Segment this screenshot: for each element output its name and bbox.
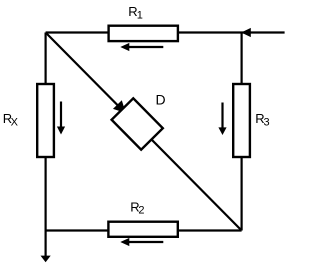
resistor R3 [233,84,250,157]
arrow on diagonal into D [113,100,126,113]
resistor R1 [109,26,178,41]
wire top horizontal from node A to right terminal [46,31,285,33]
arrow output at bottom-left [41,256,51,263]
svg-text:2: 2 [138,205,144,217]
svg-text:1: 1 [137,10,143,22]
wire bridge diagonal from node A to node E [46,33,242,231]
arrow current at top-right node B [241,28,251,37]
svg-text:X: X [11,117,19,129]
wire right vertical from node B through R3 to node E [241,33,243,231]
svg-text:D: D [156,92,166,108]
svg-text:3: 3 [264,117,270,129]
resistor RX [37,84,54,157]
detector D box [112,98,163,149]
wire bottom horizontal from node C to node E [46,229,242,231]
arrow current beside RX [60,102,62,129]
arrow current beside R3 [221,103,223,129]
wire left vertical from node A through RX to bottom arrow [44,33,46,257]
resistor R2 [108,222,177,237]
arrow current under R2 [128,241,163,243]
arrow current I1 under R1 [128,46,163,48]
